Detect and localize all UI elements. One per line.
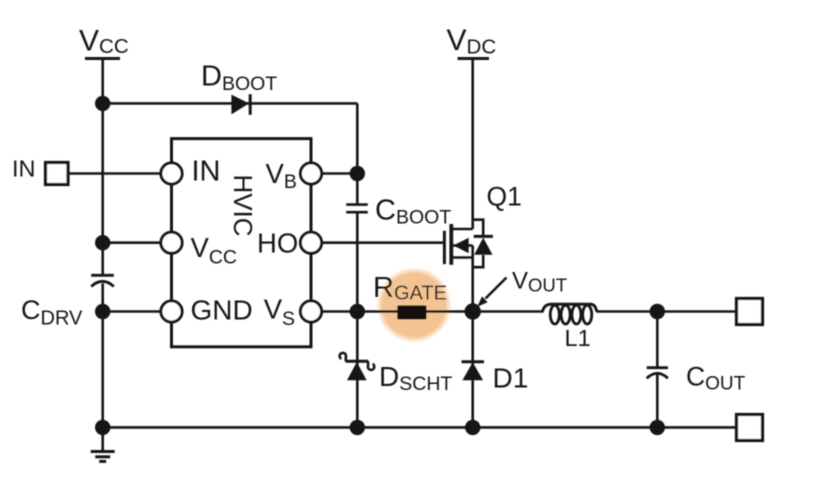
pin circle HO: [300, 232, 321, 253]
body diode cathode bar: [474, 235, 493, 238]
body arrow: [453, 238, 468, 253]
HVIC box: [172, 139, 312, 347]
ground: [91, 452, 115, 462]
wire: VDC to Q1 drain: [471, 59, 474, 230]
node: COUT bottom junction: [650, 420, 665, 435]
pin circle VB: [300, 163, 321, 184]
inductor L1: [543, 304, 597, 324]
wire: left VCC rail upper segment: [101, 59, 104, 275]
terminal: output top square: [737, 299, 763, 325]
terminal: IN square: [46, 163, 69, 185]
schottky diode D_SCHT: [340, 353, 375, 380]
wire: COUT column lower: [656, 373, 659, 427]
transistor Q1 (N-MOSFET with body diode): [444, 220, 493, 268]
svg-text:HVIC: HVIC: [228, 174, 258, 236]
VOUT pointer arrow: [477, 278, 506, 307]
body arrow lead: [451, 244, 472, 247]
gate bar: [443, 231, 446, 264]
node: VB junction: [350, 166, 365, 181]
channel bar: [449, 224, 453, 265]
wire: VCC pin stub: [103, 241, 172, 244]
drain lead: [451, 228, 472, 231]
power VCC bar: [85, 57, 120, 60]
wire: VS to VOUT node: [311, 310, 473, 313]
wire: bootstrap column upper: [356, 103, 359, 203]
node: left bottom junction: [95, 420, 110, 435]
pin circle VCC: [161, 232, 182, 253]
node: DSCHT bottom junction: [350, 420, 365, 435]
resistor R_GATE: [397, 305, 426, 319]
wire: VOUT to L1: [473, 310, 544, 313]
pin circle VS: [300, 301, 321, 322]
wire: Q1 source to bottom rail: [471, 246, 474, 428]
body diode bracket: [473, 220, 484, 268]
wire: COUT column upper: [656, 312, 659, 367]
node: GND pin junction: [95, 304, 110, 319]
wire: ground stub: [101, 427, 104, 451]
wire: VB pin stub: [311, 172, 357, 175]
node: COUT top junction: [650, 304, 665, 319]
diode D1: [462, 362, 485, 381]
node: VOUT junction: [465, 303, 481, 319]
pin circle IN: [161, 163, 182, 184]
node: VCC/DBOOT junction: [95, 96, 110, 111]
capacitor C_DRV: [91, 275, 114, 286]
power VDC bar: [458, 57, 490, 60]
highlight blob on R_GATE: [376, 267, 452, 343]
svg-text:HO: HO: [257, 228, 298, 259]
svg-text:L1: L1: [565, 325, 591, 351]
wire: bootstrap column lower: [356, 213, 359, 427]
svg-text:D1: D1: [493, 363, 529, 394]
diode D_BOOT: [231, 94, 250, 115]
body diode triangle: [474, 238, 492, 255]
svg-text:Q1: Q1: [487, 182, 522, 212]
capacitor C_BOOT: [346, 205, 368, 213]
node: D1 bottom junction: [465, 420, 480, 435]
wire: GND pin stub: [103, 310, 172, 313]
svg-text:GND: GND: [191, 295, 253, 326]
wire: IN input: [66, 172, 172, 175]
node: VCC pin junction: [95, 235, 110, 250]
svg-text:IN: IN: [12, 156, 36, 182]
wire: D_BOOT top rail: [103, 102, 358, 105]
wire: L1 to COUT node: [597, 310, 737, 313]
capacitor C_OUT: [647, 368, 668, 379]
wire: HO to gate: [311, 241, 443, 244]
pin circle GND: [161, 301, 182, 322]
node: VS junction: [350, 304, 365, 319]
terminal: output bottom square: [737, 415, 763, 441]
source lead: [451, 256, 472, 259]
svg-text:IN: IN: [192, 156, 221, 188]
wire: bottom ground rail: [103, 426, 737, 429]
wire: left rail lower segment: [101, 284, 104, 428]
